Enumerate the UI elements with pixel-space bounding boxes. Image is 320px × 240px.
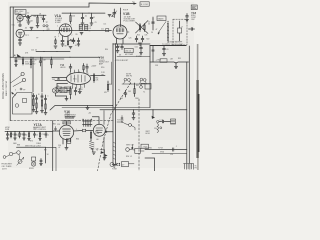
resistor right of oval	[93, 74, 94, 83]
AGC chain cap+res 1	[32, 94, 34, 110]
long bus y109.8	[100, 109, 187, 111]
ground below oval	[78, 89, 81, 94]
capacitor C2	[27, 15, 30, 21]
svg-text:GANG: GANG	[158, 18, 164, 21]
blocking osc coil	[157, 124, 158, 133]
svg-text:R45: R45	[120, 98, 123, 100]
ground	[14, 138, 17, 140]
cap + ground x41	[40, 159, 42, 164]
ground	[81, 23, 84, 25]
dashed CRT boundary curve	[98, 83, 131, 171]
svg-text:.01: .01	[75, 45, 77, 47]
tube V4 circle	[113, 25, 127, 39]
shunt res 2	[10, 132, 11, 139]
dashed vertical boundary	[138, 99, 140, 171]
capacitor	[152, 22, 155, 23]
svg-text:.02: .02	[58, 147, 60, 149]
vertical wire x150	[149, 46, 151, 108]
capacitor C6	[81, 13, 84, 22]
crystal element inside	[179, 21, 181, 28]
AGC chain 3	[41, 94, 43, 111]
trap label box	[124, 48, 133, 52]
svg-text:T3: T3	[87, 126, 89, 128]
svg-text:C80: C80	[96, 149, 99, 151]
yoke enclosure corner	[145, 158, 155, 171]
tube V1 circle	[17, 15, 23, 21]
coil L vertical	[167, 21, 168, 43]
connector circle	[157, 120, 159, 122]
dashed shield box	[173, 19, 187, 45]
vert sync arrows	[101, 151, 104, 154]
wire to V1B top	[119, 8, 121, 25]
svg-text:C40: C40	[52, 79, 55, 81]
svg-text:R40: R40	[109, 84, 112, 86]
audio out chain resistor	[90, 131, 91, 141]
svg-text:.1: .1	[48, 135, 49, 137]
test point circles	[43, 25, 45, 27]
AGC chain 2	[35, 95, 37, 111]
tube V3 pins down	[63, 36, 69, 41]
capacitor drop 3	[39, 57, 42, 66]
Y17A section: bottom bus	[5, 131, 53, 133]
coil label box	[60, 88, 67, 93]
resistor row below V3	[55, 39, 56, 45]
ground	[28, 139, 31, 141]
svg-text:C22 .05: C22 .05	[31, 50, 37, 52]
lower wire	[152, 153, 187, 155]
svg-text:R51: R51	[96, 78, 99, 80]
svg-text:R9: R9	[76, 34, 78, 36]
svg-text:220: 220	[72, 16, 75, 18]
coupling capacitor	[159, 120, 171, 123]
tube V15 oval envelope	[67, 73, 91, 85]
ground	[162, 54, 165, 56]
ground below bus	[86, 106, 89, 110]
svg-text:MODEL 21T8 CHASSIS: MODEL 21T8 CHASSIS	[2, 73, 5, 99]
ground	[39, 139, 42, 141]
IF transformer left	[79, 25, 82, 31]
ground	[41, 111, 44, 113]
svg-text:L7: L7	[181, 27, 183, 29]
svg-text:T1: T1	[89, 31, 91, 33]
svg-text:MC TRAP: MC TRAP	[125, 53, 134, 56]
ground	[44, 113, 47, 115]
svg-text:R88: R88	[17, 145, 20, 147]
vertical drop x153	[152, 46, 154, 63]
dark bold label block above V6	[65, 113, 75, 119]
svg-text:C56: C56	[58, 145, 61, 147]
hold control box	[171, 119, 176, 124]
svg-text:OSC PLATE: OSC PLATE	[2, 165, 13, 168]
resistor x134.5	[134, 87, 135, 97]
svg-text:R22: R22	[147, 39, 150, 41]
capacitor cluster below	[135, 36, 138, 42]
svg-text:+270V: +270V	[156, 60, 162, 62]
capacitor left	[57, 78, 59, 80]
svg-text:4.5MC: 4.5MC	[55, 22, 61, 24]
second bus line	[14, 58, 64, 60]
capacitor	[116, 44, 119, 50]
capacitor	[121, 44, 124, 50]
ground	[30, 27, 33, 29]
svg-text:+140V: +140V	[91, 66, 97, 68]
yoke box	[122, 162, 129, 167]
tube V15 pins bottom	[73, 84, 85, 89]
deflection junction cluster	[121, 121, 122, 122]
ground	[92, 152, 95, 154]
label box top-left	[15, 10, 26, 15]
svg-text:R95: R95	[178, 58, 181, 60]
wires sound IF	[56, 91, 71, 100]
svg-text:FOLLOWER: FOLLOWER	[124, 21, 136, 23]
svg-text:C61: C61	[135, 47, 138, 49]
resistor box 2	[64, 87, 70, 92]
svg-text:VERT OUT: VERT OUT	[126, 145, 134, 147]
small box	[135, 148, 141, 153]
variable capacitor C10	[113, 9, 116, 18]
svg-text:.5: .5	[47, 96, 48, 98]
bus wire y13.1	[62, 12, 105, 14]
tube V6 circle	[59, 125, 73, 139]
svg-text:Y14: Y14	[60, 64, 65, 67]
svg-text:R60: R60	[76, 139, 79, 141]
audio B wire	[145, 149, 187, 151]
resistor drop 4	[51, 57, 52, 68]
svg-text:7: 7	[72, 35, 73, 37]
resistor	[139, 24, 140, 32]
svg-text:TO DEFL: TO DEFL	[117, 120, 124, 122]
hatches on pair	[113, 142, 116, 160]
IF transformer right	[84, 25, 87, 31]
svg-text:+270V B BOOST: +270V B BOOST	[115, 60, 130, 62]
capacitor below V2	[19, 38, 22, 43]
upper right cluster circle	[126, 148, 130, 152]
svg-text:C5: C5	[47, 28, 49, 30]
svg-text:.001: .001	[33, 16, 36, 18]
svg-text:V1B: V1B	[123, 12, 130, 16]
shunt res 6	[28, 132, 29, 139]
resistor	[67, 41, 68, 46]
ratio detector diagonals	[136, 21, 149, 34]
wire riser to tuner lead	[89, 3, 132, 7]
capacitor extra below V3	[77, 38, 80, 46]
bowtie	[117, 163, 121, 166]
ground	[6, 138, 9, 140]
svg-text:10: 10	[47, 30, 49, 32]
svg-text:C60: C60	[117, 46, 120, 48]
svg-text:+60: +60	[88, 113, 91, 115]
svg-text:2: 2	[58, 36, 59, 38]
capacitor	[124, 91, 127, 98]
svg-text:R30: R30	[105, 49, 108, 51]
dashed separator horizontal	[10, 120, 114, 122]
svg-text:C25: C25	[129, 38, 132, 40]
cap left of V6	[54, 127, 56, 132]
ground	[35, 112, 38, 114]
svg-text:C55: C55	[57, 124, 60, 126]
vertical x111.3	[110, 62, 112, 84]
svg-text:C70: C70	[10, 134, 13, 136]
tube V2 circle	[16, 29, 24, 37]
V6 top pin	[66, 122, 68, 126]
wires into oval left	[52, 78, 68, 84]
wire chain x153	[152, 17, 154, 30]
V17B plate wire	[105, 131, 113, 133]
svg-text:R71: R71	[21, 134, 24, 136]
svg-text:1: 1	[57, 26, 58, 28]
svg-text:5K: 5K	[47, 154, 49, 156]
speaker circle	[31, 162, 35, 166]
svg-text:.01: .01	[166, 49, 169, 51]
resistor box 1	[56, 87, 62, 92]
H coupling bowtie	[82, 129, 86, 133]
ground	[65, 99, 68, 101]
svg-text:500K AUDIO: 500K AUDIO	[25, 63, 36, 66]
shunt cap 1	[6, 132, 8, 138]
vertical capacitor	[140, 44, 143, 52]
cathode resistor box	[66, 139, 71, 144]
svg-text:R8: R8	[65, 46, 67, 48]
svg-text:TP 2: TP 2	[25, 35, 29, 37]
long bus y107.5	[62, 107, 150, 109]
svg-text:R20: R20	[137, 35, 140, 37]
svg-text:TO V8: TO V8	[158, 147, 163, 149]
ground	[18, 43, 21, 45]
ground	[23, 138, 26, 140]
tuner inner square	[23, 99, 27, 103]
shunt cap 9	[45, 132, 47, 138]
tube V3 circle	[59, 24, 72, 37]
svg-text:6: 6	[71, 25, 72, 27]
svg-text:V2: V2	[17, 22, 19, 24]
svg-text:.1: .1	[176, 146, 177, 148]
svg-text:RADIO CORP NY: RADIO CORP NY	[5, 80, 8, 96]
ground	[174, 63, 177, 68]
svg-text:L40: L40	[96, 139, 99, 141]
volume bus y57.3	[10, 56, 100, 58]
svg-text:R80: R80	[34, 128, 37, 130]
svg-text:VERT: VERT	[146, 131, 150, 133]
resistor x108	[107, 83, 108, 92]
ground	[139, 43, 142, 45]
svg-text:C98: C98	[155, 65, 158, 67]
vert output transformer cluster	[82, 119, 92, 127]
capacitor C7	[90, 13, 93, 22]
antenna arrow mid-left	[17, 54, 21, 57]
svg-text:C95: C95	[170, 154, 173, 156]
ground	[27, 22, 30, 24]
capacitor x75.5	[74, 88, 77, 96]
long bus y105.5	[50, 106, 113, 111]
svg-text:.05: .05	[25, 28, 28, 30]
capacitor above oval tube	[69, 64, 72, 72]
svg-text:VERT HOLD CONT: VERT HOLD CONT	[25, 146, 42, 148]
resistor drop 1	[22, 57, 23, 65]
top-right spec box	[191, 5, 197, 10]
svg-text:.001: .001	[40, 17, 43, 19]
capacitor C30	[163, 46, 166, 54]
wire y51.5	[36, 51, 70, 53]
resistor R osc	[23, 16, 31, 18]
svg-text:.01: .01	[85, 16, 88, 18]
vertical x56	[46, 147, 57, 171]
lower cluster circle	[110, 163, 114, 167]
shunt cap 3	[14, 132, 16, 138]
tuner inner circle	[15, 104, 19, 108]
AGC chain 4	[44, 95, 46, 112]
vert bus pair x115.5	[115, 44, 117, 165]
sound IF oval coil	[52, 88, 58, 93]
B+ wire y62	[150, 62, 189, 63]
svg-text:1W: 1W	[101, 75, 104, 77]
svg-text:82: 82	[26, 135, 28, 137]
tube V17B circle	[93, 124, 105, 136]
resistor horizontal below V3	[69, 39, 75, 41]
text smudges	[2, 2, 198, 171]
ground	[32, 110, 35, 112]
ground	[108, 15, 111, 17]
capacitor	[72, 38, 75, 44]
shunt res 4	[19, 132, 20, 139]
resistor R2	[37, 15, 38, 25]
svg-text:4.5: 4.5	[89, 28, 92, 30]
svg-text:L38: L38	[170, 59, 173, 61]
bus wire y30.6	[24, 30, 111, 32]
svg-text:SOUND: SOUND	[136, 56, 143, 58]
shunt cap 7	[33, 132, 35, 138]
wires	[129, 145, 144, 152]
inner left wire	[12, 7, 14, 57]
+140V label box	[141, 144, 148, 148]
ground	[36, 26, 39, 28]
wire from bowtie	[86, 129, 94, 131]
output coil hatched	[90, 142, 95, 150]
book gutter dark edge	[197, 44, 199, 80]
capacitor above oval tube 2	[86, 64, 89, 72]
shunt cap 5	[23, 132, 25, 138]
AGC feed vertical 2	[41, 57, 43, 92]
grounds under V3 row	[54, 46, 57, 48]
svg-text:C74: C74	[42, 134, 45, 136]
resistor R5 vertical	[70, 13, 71, 24]
ground	[103, 158, 106, 160]
ground	[80, 33, 83, 35]
svg-text:12AT7: 12AT7	[16, 12, 21, 15]
wires	[100, 150, 105, 158]
AGC feed vertical 1	[32, 57, 34, 92]
svg-text:B.1 OSC: B.1 OSC	[141, 4, 149, 6]
coupling box on wire	[106, 29, 109, 32]
page border left	[9, 7, 11, 121]
wires	[114, 163, 134, 166]
svg-text:R77: R77	[44, 150, 47, 152]
antenna arrow into tuner	[12, 93, 16, 96]
svg-text:C2: C2	[27, 13, 29, 15]
ground below V6	[65, 144, 68, 150]
svg-text:L20: L20	[61, 90, 64, 92]
svg-text:L15: L15	[104, 24, 107, 26]
svg-text:R41: R41	[136, 85, 139, 87]
svg-text:10: 10	[17, 135, 19, 137]
svg-text:R90 1.2: R90 1.2	[126, 156, 132, 158]
wire y56.5	[117, 56, 150, 58]
TP mark	[20, 88, 22, 90]
svg-text:R3 22K: R3 22K	[28, 21, 34, 23]
capacitor right of box	[189, 28, 195, 31]
ground	[61, 44, 64, 46]
wires top cluster	[108, 81, 145, 87]
box TO TUNER	[140, 2, 149, 6]
B+ bus vertical 1	[186, 62, 188, 163]
svg-text:R50: R50	[101, 67, 104, 69]
resistor x70.5	[70, 87, 71, 98]
svg-text:C .05: C .05	[160, 120, 164, 122]
svg-text:TO PIN 2 OF V3 4.5MC: TO PIN 2 OF V3 4.5MC	[162, 44, 184, 46]
feed arrow	[152, 116, 155, 119]
svg-text:C9: C9	[95, 22, 97, 24]
svg-text:6: 6	[15, 90, 16, 92]
ground bottom of pair	[112, 165, 116, 168]
top cap connector circles	[124, 78, 127, 81]
page border top	[10, 6, 89, 8]
svg-text:C65: C65	[128, 91, 131, 93]
vert osc feed riser	[152, 110, 154, 117]
capacitor row below V3	[61, 41, 64, 44]
svg-text:L30 4.5: L30 4.5	[125, 51, 131, 53]
vertical drop x45.5	[45, 147, 47, 163]
svg-text:SOUND TAKEOFF: SOUND TAKEOFF	[168, 41, 182, 44]
resistor above oval tube	[83, 64, 84, 72]
svg-text:56: 56	[148, 24, 150, 26]
arrow to tuner box	[132, 3, 136, 5]
tuner enclosure	[13, 93, 33, 115]
sound takeoff bus	[150, 45, 186, 47]
pot wires	[6, 153, 20, 160]
wire tube V1 down	[19, 21, 22, 26]
left vertical x52.7	[52, 121, 54, 171]
svg-text:.01: .01	[93, 17, 95, 19]
V6 right wire to coupler	[74, 130, 83, 133]
wire below oval	[57, 84, 73, 89]
resistor drop 2	[30, 57, 31, 68]
small label box	[160, 59, 167, 63]
tube V15 pins top	[71, 70, 88, 74]
potentiometer circles	[21, 72, 24, 75]
wire y84	[122, 83, 150, 85]
terminal fence	[184, 164, 194, 170]
V17B top pin	[92, 117, 99, 125]
small circle connector	[140, 86, 143, 89]
svg-text:Y16: Y16	[65, 113, 70, 117]
svg-text:PWR: PWR	[5, 129, 10, 131]
B+ bus vertical 2	[188, 46, 190, 163]
vertical wire x104	[103, 111, 105, 161]
svg-text:.05: .05	[34, 60, 37, 62]
V6 left wire	[53, 130, 60, 132]
svg-text:3: 3	[58, 34, 59, 36]
vert bus pair x113	[112, 44, 114, 165]
junction dot	[131, 147, 133, 149]
V6 bottom pins	[63, 139, 71, 145]
top mid cluster wire y44	[113, 43, 150, 45]
svg-text:1 MEG: 1 MEG	[36, 143, 42, 145]
tube V4 pins down	[117, 39, 124, 44]
small box right	[145, 84, 151, 90]
gang label box	[157, 16, 166, 21]
svg-text:TO GRID: TO GRID	[145, 148, 153, 150]
capacitor w ground top right	[186, 14, 189, 20]
svg-text:+140V: +140V	[78, 89, 84, 91]
